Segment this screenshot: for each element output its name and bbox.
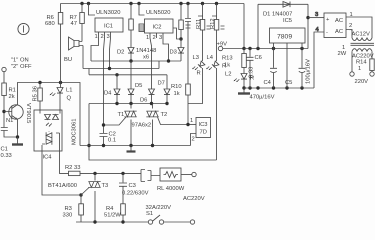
resistor above D2	[129, 4, 134, 48]
resistor R7	[70, 4, 85, 42]
svg-text:R10: R10	[171, 84, 182, 90]
switch S1 32A/220V	[146, 205, 195, 224]
label triac type 97A6x2	[132, 123, 152, 129]
triac T3 BT41A/600	[48, 173, 108, 222]
ground under bus	[127, 146, 136, 152]
connector plug-socket	[139, 170, 160, 182]
resistor R5	[33, 83, 43, 111]
svg-text:D7: D7	[158, 81, 165, 87]
optocoupler IC4 MOC3061	[34, 110, 78, 161]
svg-text:IC3: IC3	[199, 122, 208, 128]
diode D1 1N4007	[258, 2, 308, 49]
resistor R3 330	[63, 195, 84, 222]
wire: ground rail	[244, 86, 314, 89]
wire: IC1 pin2 down to triac gate node	[104, 38, 105, 125]
capacitor C3 0.22/630V	[119, 173, 149, 203]
resistor R2 33	[65, 165, 139, 176]
svg-text:R13: R13	[222, 56, 233, 62]
svg-text:BU: BU	[64, 57, 72, 63]
wire: crossbar2	[83, 61, 159, 70]
wire: speaker drop to crossbar2	[82, 46, 84, 69]
svg-text:C6: C6	[255, 55, 262, 61]
wire: opto pin to T3 gate	[42, 151, 89, 197]
svg-text:S1: S1	[146, 211, 153, 217]
op-amp IC1 melody chip ULN3020	[89, 4, 124, 41]
svg-text:0.33: 0.33	[1, 153, 12, 159]
svg-text:D4: D4	[104, 91, 112, 97]
capacitor C2 0.1	[100, 123, 117, 145]
wire: collector line to R5 and bus drop	[18, 81, 81, 146]
diode D5	[128, 61, 142, 104]
svg-text:ULN5020: ULN5020	[146, 10, 171, 16]
LED L3	[188, 55, 205, 104]
svg-text:C5: C5	[285, 80, 292, 86]
svg-text:R2 33: R2 33	[65, 165, 80, 171]
transformer primary AC220V	[352, 49, 374, 72]
svg-text:7D: 7D	[200, 130, 207, 136]
svg-text:L4: L4	[207, 55, 214, 61]
wire: IC2 pin3 jog to crossbar1	[163, 38, 169, 61]
resistor R4 51/2W	[104, 204, 125, 222]
triac T1	[104, 104, 137, 146]
wire: D1 node to bridge plus	[306, 12, 324, 19]
wire: crossbar1	[91, 59, 181, 62]
wire: rail drop to +9V rail	[243, 4, 245, 49]
svg-text:R: R	[197, 71, 201, 77]
load RL 4000W	[157, 168, 205, 202]
svg-text:D6: D6	[140, 98, 147, 104]
wire: crossbar3 to D7	[89, 69, 167, 90]
LED L1	[50, 69, 73, 110]
speaker BU	[64, 37, 83, 63]
svg-text:ULN3020: ULN3020	[96, 10, 121, 16]
svg-text:R5 36: R5 36	[33, 86, 39, 101]
crystal at IC2 input	[139, 24, 144, 32]
svg-text:D5: D5	[135, 83, 142, 89]
LED L2	[225, 68, 254, 89]
svg-text:N1: N1	[6, 118, 13, 124]
svg-text:T1: T1	[118, 112, 125, 118]
capacitor C5 100u/16V	[285, 49, 312, 89]
svg-text:IC1: IC1	[104, 24, 113, 30]
svg-text:1: 1	[146, 35, 149, 41]
svg-text:680: 680	[45, 21, 55, 27]
svg-text:0.1: 0.1	[108, 138, 116, 144]
svg-text:220V: 220V	[355, 79, 369, 85]
svg-text:R11: R11	[196, 19, 202, 29]
wire: IC2 right pin to D3 node	[173, 28, 181, 39]
svg-text:-: -	[326, 30, 328, 36]
diode D6	[140, 89, 155, 104]
resistor R14 1	[356, 59, 374, 72]
svg-text:470µ/16V: 470µ/16V	[250, 95, 275, 101]
transistor VT1 9015	[4, 103, 31, 137]
svg-text:1k: 1k	[174, 91, 180, 97]
svg-text:L2: L2	[225, 72, 231, 78]
diode D4	[104, 75, 120, 104]
svg-text:100µ/16V: 100µ/16V	[306, 59, 312, 84]
svg-text:D2: D2	[117, 50, 124, 56]
svg-text:7809: 7809	[277, 34, 292, 41]
resistor R1 2k	[2, 83, 16, 128]
svg-text:IC2: IC2	[153, 25, 162, 31]
svg-text:51/2W: 51/2W	[104, 213, 121, 219]
svg-text:VT9015: VT9015	[25, 103, 31, 123]
resistor above D3	[179, 4, 184, 41]
svg-text:3: 3	[107, 34, 110, 40]
diode D3 1N4148	[170, 39, 185, 61]
wire: bridge minus to ground rail	[314, 27, 324, 88]
capacitor C4 470u/16V	[250, 49, 278, 101]
ground at transistor emitter	[12, 135, 23, 144]
svg-text:AC12V: AC12V	[352, 32, 371, 38]
svg-text:R3: R3	[65, 206, 72, 212]
svg-text:97A6x2: 97A6x2	[132, 123, 152, 129]
svg-text:T3: T3	[102, 183, 109, 189]
svg-text:AC: AC	[335, 29, 343, 35]
op-amp IC3 sensor	[186, 118, 210, 146]
wire: main lower bus	[80, 144, 191, 147]
svg-text:2: 2	[153, 35, 156, 41]
svg-text:3: 3	[159, 35, 162, 41]
svg-text:2: 2	[192, 137, 195, 143]
ground at L2	[238, 86, 250, 93]
triac T2	[146, 104, 188, 146]
svg-text:x6: x6	[143, 55, 149, 61]
transformer T 2W secondary AC12V	[338, 32, 375, 58]
node: ON/OFF control terminal	[2, 58, 32, 84]
wire: bridge AC2 to transformer	[346, 30, 352, 39]
svg-text:47: 47	[71, 21, 77, 27]
svg-text:AC: AC	[335, 18, 343, 24]
op-amp IC2 melody chip ULN5020	[139, 4, 173, 42]
resistor R13 1k	[222, 47, 246, 69]
svg-text:1N4148: 1N4148	[136, 48, 156, 54]
svg-text:3: 3	[315, 12, 318, 18]
resistor R10 1k	[171, 84, 190, 125]
resistor R12 column with LED L4	[210, 4, 225, 62]
wire: diode cathode crossbar y103	[89, 102, 169, 105]
svg-text:L1: L1	[66, 88, 72, 94]
node: 220V mains terminals	[350, 72, 374, 85]
opto triac output	[46, 132, 52, 144]
svg-text:C3: C3	[129, 183, 136, 189]
svg-text:RL 4000W: RL 4000W	[157, 186, 185, 192]
svg-text:IC4: IC4	[43, 155, 53, 161]
wire: +9V rail	[244, 47, 308, 50]
svg-text:BT41A/600: BT41A/600	[48, 183, 77, 189]
svg-text:R14: R14	[356, 60, 367, 66]
svg-text:1k: 1k	[224, 63, 230, 69]
resistor R11 column with LED L3	[196, 4, 211, 62]
svg-text:"2" OFF: "2" OFF	[11, 64, 32, 70]
svg-text:C1: C1	[1, 147, 8, 153]
svg-text:L3: L3	[193, 55, 199, 61]
svg-text:1: 1	[190, 118, 193, 124]
svg-text:C4: C4	[264, 80, 272, 86]
diode D7	[158, 81, 171, 104]
wire: bridge AC1 to transformer	[346, 17, 372, 38]
voltage regulator IC5 7809	[270, 28, 306, 88]
svg-text:0.22/630V: 0.22/630V	[122, 191, 149, 197]
rectifier bridge	[324, 12, 354, 38]
capacitor on R10 column	[185, 4, 191, 85]
svg-text:2k: 2k	[9, 94, 15, 100]
LED L4	[206, 55, 226, 160]
svg-text:R1: R1	[9, 88, 16, 94]
svg-text:IC5: IC5	[283, 18, 292, 24]
svg-text:T2: T2	[161, 112, 168, 118]
svg-text:Q: Q	[67, 96, 72, 102]
svg-text:1: 1	[95, 34, 98, 40]
svg-text:R12: R12	[210, 18, 216, 29]
resistor R6	[45, 4, 63, 70]
svg-text:"1" ON: "1" ON	[11, 58, 29, 64]
svg-text:32A/220V: 32A/220V	[146, 205, 172, 211]
capacitor C1 0.33	[1, 128, 18, 160]
wire: bottom mains wire	[76, 220, 148, 223]
svg-text:0.33: 0.33	[249, 67, 255, 78]
node: +9V supply terminal	[217, 42, 245, 51]
svg-text:MOC3061: MOC3061	[72, 119, 78, 145]
svg-text:2: 2	[101, 34, 104, 40]
wire: IC1 pin1 jog to crossbar1	[91, 38, 99, 61]
svg-text:2W: 2W	[338, 51, 347, 57]
svg-text:D3: D3	[170, 50, 177, 56]
wire: IC1 pin3 to crossbar2	[110, 38, 111, 69]
svg-text:R4: R4	[106, 206, 114, 212]
capacitor C6 0.33	[247, 49, 262, 89]
svg-text:D1 1N4007: D1 1N4007	[263, 12, 292, 18]
svg-text:330: 330	[63, 213, 73, 219]
label 1N4148 x6	[136, 48, 156, 61]
wire: opto pin to R2 line	[60, 151, 69, 173]
svg-text:AC220V: AC220V	[183, 196, 205, 202]
node: rail junction dots	[80, 2, 218, 5]
wire: y103 crossbar drop to bottom return	[87, 104, 216, 161]
svg-text:1: 1	[358, 66, 361, 72]
wire: IC2 pin1 down to D6	[150, 38, 152, 89]
wire: +V top rail	[61, 3, 245, 5]
diode D2 1N4148	[117, 48, 134, 62]
node: circled schematic number 1	[18, 23, 29, 34]
